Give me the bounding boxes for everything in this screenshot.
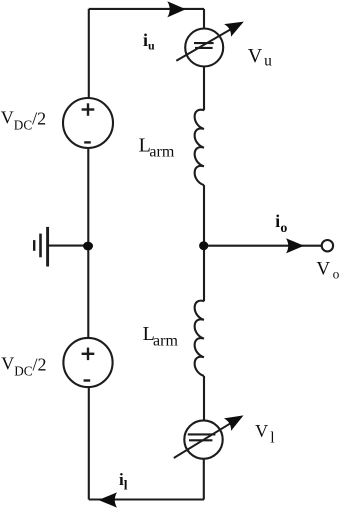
V_u source internal = lines xyxy=(194,43,214,48)
wire V_l to bottom xyxy=(203,459,205,500)
wire upper inductor to node A xyxy=(203,185,205,301)
minus sign U1 xyxy=(84,141,91,143)
svg-text:Vl: Vl xyxy=(255,421,275,447)
wire ground stub xyxy=(48,245,85,247)
wire left branch middle xyxy=(87,148,89,338)
node A junction dot (left) xyxy=(83,242,93,251)
plus sign U2 xyxy=(82,348,95,361)
inductor L_arm lower xyxy=(195,301,204,376)
svg-text:VDC/2: VDC/2 xyxy=(1,353,46,378)
arrow i_o on output wire xyxy=(286,238,304,253)
V_l source internal = lines xyxy=(188,434,216,440)
wire top horizontal xyxy=(89,8,204,10)
wire output i_o xyxy=(204,245,322,247)
variable source V_u circle xyxy=(185,29,223,67)
svg-text:VDC/2: VDC/2 xyxy=(1,108,46,133)
arrow i_l on bottom wire xyxy=(98,492,117,507)
wire left branch lower xyxy=(88,387,90,499)
svg-text:iu: iu xyxy=(143,30,155,53)
wire lower inductor to V_l xyxy=(203,376,205,420)
wire V_u to upper arm inductor xyxy=(203,67,205,111)
V_u variable arrow diagonal xyxy=(176,15,247,60)
svg-text:Larm: Larm xyxy=(143,323,179,349)
svg-text:io: io xyxy=(275,211,287,236)
ground xyxy=(34,227,47,267)
variable source V_l circle xyxy=(184,420,222,458)
plus sign U1 xyxy=(82,103,95,116)
svg-text:il: il xyxy=(119,470,128,493)
source V_DC/2 upper (U1) xyxy=(63,98,113,148)
svg-text:Vu: Vu xyxy=(248,45,272,70)
wire left branch upper xyxy=(88,9,90,98)
minus sign U2 xyxy=(84,379,91,381)
V_l variable arrow diagonal xyxy=(174,409,247,458)
svg-text:Vo: Vo xyxy=(316,258,339,281)
terminal V_o open circle xyxy=(322,240,333,251)
inductor L_arm upper xyxy=(195,110,204,185)
arrow i_u on top wire xyxy=(167,1,186,17)
node B junction dot (right, output node) xyxy=(199,241,208,250)
wire bottom horizontal xyxy=(89,498,204,500)
svg-text:Larm: Larm xyxy=(139,135,175,161)
source V_DC/2 lower (U2) xyxy=(63,338,112,387)
wire right branch top xyxy=(203,9,205,29)
